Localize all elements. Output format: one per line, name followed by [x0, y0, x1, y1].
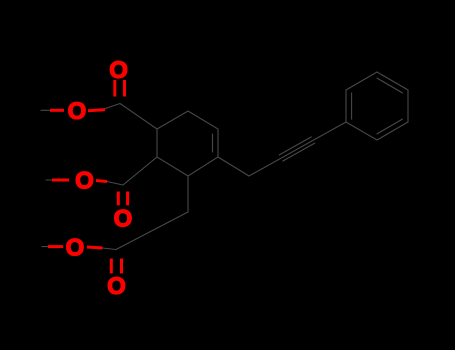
svg-text:O: O [75, 168, 94, 195]
svg-text:O: O [109, 57, 128, 84]
svg-text:O: O [107, 273, 126, 300]
svg-text:O: O [114, 206, 133, 233]
svg-text:O: O [66, 235, 85, 262]
svg-text:O: O [68, 98, 87, 125]
